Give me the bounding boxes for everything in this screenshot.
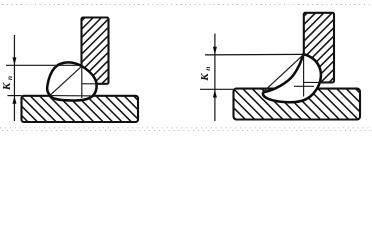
dimension shaft bbox=[214, 34, 216, 122]
bottom plate (left diagram) bbox=[22, 0, 139, 232]
vertical plate (right diagram) bbox=[238, 13, 372, 83]
svg-text:п: п bbox=[5, 76, 14, 80]
page texture dotted line top bbox=[2, 4, 370, 6]
small horizontal leg bbox=[294, 85, 314, 87]
svg-text:К: К bbox=[199, 73, 211, 82]
plate face through weld bbox=[303, 54, 305, 96]
inner thin lines of right weld bbox=[263, 54, 334, 96]
label Kp (right) bbox=[199, 67, 212, 82]
arrowhead top (right dimension) bbox=[213, 47, 217, 55]
dimension shaft bbox=[13, 35, 15, 121]
weld bead (right diagram) bbox=[263, 54, 321, 102]
dimension (left): extension lines bbox=[6, 35, 79, 121]
weld bead (left diagram) bbox=[47, 62, 96, 100]
plate bottom edge through weld bbox=[304, 81, 334, 83]
dimension (right): extension lines bbox=[200, 34, 303, 122]
svg-text:п: п bbox=[203, 67, 212, 71]
bottom plate (right diagram) bbox=[234, 0, 361, 240]
plate bottom edge through weld bbox=[82, 83, 109, 85]
page texture dotted lines bottom bbox=[0, 128, 372, 131]
vertical plate (left diagram) bbox=[19, 18, 168, 84]
inner thin lines of left weld bbox=[50, 66, 109, 98]
label Kp (left) bbox=[1, 76, 14, 91]
plate face through weld bbox=[81, 66, 83, 98]
hypotenuse bbox=[51, 66, 82, 94]
plate top surface through weld bbox=[50, 95, 97, 97]
arrowhead bottom (right dimension) bbox=[213, 90, 217, 98]
chord (hypotenuse) bbox=[263, 55, 303, 92]
arrowhead bottom (left dimension) bbox=[12, 96, 16, 104]
svg-text:К: К bbox=[1, 82, 13, 91]
arrowhead top (left dimension) bbox=[12, 57, 16, 65]
